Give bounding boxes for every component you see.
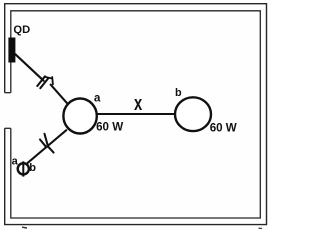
breaker QD (black rectangle) [8,38,15,63]
svg-text:b: b [175,87,182,99]
stray tick bottom left [22,226,27,229]
lamp a (left bulb 60 W) [63,99,96,134]
plug center bar [22,161,24,176]
wall opening cap lower [5,127,11,129]
wire from break to lamp a (lower segment) [51,85,68,104]
break symbol 2 slash L1 [40,140,46,148]
svg-text:60 W: 60 W [210,122,237,135]
stray tick bottom right [259,227,263,229]
wire break to plug (lower segment) [27,147,47,164]
break symbol 1 tick D [51,77,54,84]
break symbol 1 tick C [45,77,52,79]
wall outer outline [5,4,267,225]
svg-text:a: a [94,92,101,104]
break symbol 1 slash A [37,76,45,86]
wall inner outline [11,11,260,218]
wire lamp a to lamp b [97,113,176,115]
wire lamp a to plug (upper segment) [47,130,66,146]
wire from QD to lamp a (upper segment) [15,54,43,80]
svg-text:x: x [134,92,142,115]
break symbol 1 slash B [40,79,48,89]
wall opening cap upper [5,92,11,94]
lamp b (right bulb 60 W) [175,97,211,131]
svg-text:a: a [12,155,19,167]
svg-text:60 W: 60 W [96,121,123,134]
plug (lamp holder) circle [18,163,29,174]
svg-text:b: b [29,162,36,174]
break symbol 2 crossing slash L2 [45,134,54,153]
svg-text:QD: QD [13,24,30,36]
